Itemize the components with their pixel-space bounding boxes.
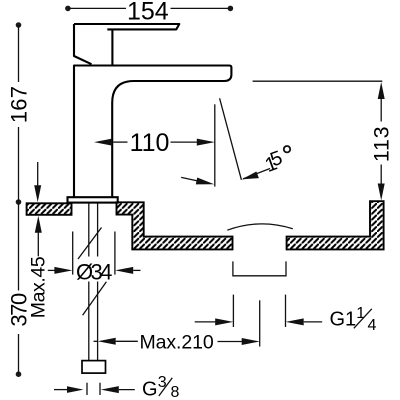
base plate [68,197,118,202]
svg-text:8: 8 [171,384,180,400]
tilted 15 degree line [220,98,242,180]
svg-text:G1: G1 [330,308,357,330]
outlet extension line [214,104,216,186]
svg-text:4: 4 [368,317,377,334]
break slash upper [78,228,102,260]
dimension G1 1/4 [195,295,377,334]
dimension 113 right [253,81,394,200]
angular arrow at outlet line [181,177,214,184]
supply shank tube [89,204,98,361]
handle lever blade [74,24,179,29]
faucet body and spout outline [74,66,231,197]
pop-up waste dome arc [227,224,292,230]
drain flange bracket [233,261,286,275]
counter left section hatched [27,203,72,215]
break slash lower [83,282,107,316]
basin right wall hatched [287,201,384,249]
svg-text:3: 3 [158,374,167,391]
svg-text:Max.210: Max.210 [140,331,214,353]
dimension Max.210 [94,331,260,353]
svg-text:1: 1 [356,305,365,322]
dimension G 3/8 [54,374,180,400]
cartridge housing left edge and bevel [74,24,92,64]
svg-text:167: 167 [7,86,32,123]
handle stem [111,29,113,64]
counter middle section with basin wall hatched [117,202,233,249]
svg-text:113: 113 [370,126,394,162]
dimension 167 left [7,22,32,205]
svg-text:Ø34: Ø34 [76,259,112,284]
drain center line [259,300,261,346]
svg-text:Max.45: Max.45 [27,256,49,318]
dimension D34 [48,232,141,285]
svg-text:110: 110 [130,129,170,157]
15 degree leader and arrow [242,146,290,179]
dimension 110 [94,129,215,157]
dimension 370 left [6,202,31,377]
dimension 154 top [65,0,233,26]
dimension Max.45 [27,162,49,318]
svg-text:G: G [142,378,158,400]
svg-text:154: 154 [127,0,169,26]
shank end fitting [82,361,106,374]
